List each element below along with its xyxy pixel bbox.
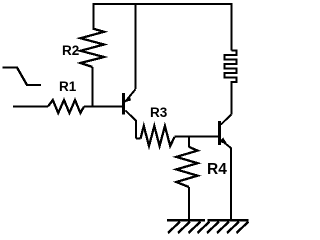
transistor Q2 arrow (points out, NPN) <box>220 138 228 145</box>
ground (right) hatches <box>198 222 249 234</box>
svg-text:R1: R1 <box>59 79 77 94</box>
svg-text:R2: R2 <box>62 43 79 58</box>
wire: rail drop to Q1 collector <box>135 4 137 89</box>
ground (left) bar <box>167 219 205 222</box>
transistor Q1 arrow (points into base bar) <box>124 96 131 102</box>
svg-text:R3: R3 <box>150 105 168 120</box>
wire: R4 bottom lead to ground <box>188 187 190 219</box>
wire: R3 to Q2 base (with R4 junction) <box>175 136 219 138</box>
transistor Q1 emitter <box>126 111 137 139</box>
resistor R1 <box>48 100 84 113</box>
resistor R3 <box>141 126 175 146</box>
resistor R2 <box>81 29 105 68</box>
wire: Q1 emitter to R3 <box>136 138 140 140</box>
transistor Q1 collector diagonal <box>125 89 136 102</box>
wire: input to R1 <box>13 106 48 108</box>
transistor Q1 base bar <box>122 93 125 115</box>
transistor Q2 emitter with arrow <box>221 140 231 219</box>
inductor L1 (square meander coil) <box>225 51 237 115</box>
ground (left) hatches <box>168 222 201 234</box>
ground (right) bar <box>208 219 249 222</box>
wire: top power rail with left and right drops <box>94 4 232 51</box>
wire: R2 bottom lead to Q1 base node <box>92 67 94 107</box>
input signal waveform symbol <box>2 68 41 86</box>
transistor Q2 base bar <box>218 121 221 145</box>
transistor Q2 collector diagonal <box>221 114 231 124</box>
svg-text:R4: R4 <box>207 161 227 178</box>
wire: R1 to Q1 base <box>84 106 123 108</box>
wire: R4 top lead <box>188 137 190 147</box>
resistor R4 <box>176 147 197 187</box>
